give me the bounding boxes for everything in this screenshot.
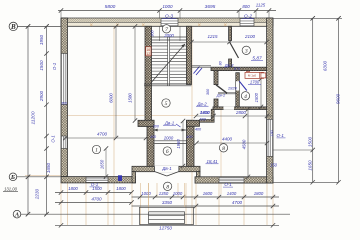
bathtub (245, 72, 264, 78)
svg-text:7: 7 (165, 27, 168, 33)
sink (261, 73, 266, 78)
room circle 8 (219, 144, 227, 152)
svg-text:300: 300 (151, 29, 155, 36)
svg-text:800: 800 (242, 4, 250, 9)
svg-text:1500: 1500 (254, 92, 259, 102)
bottom wall entrance raised band (132, 166, 200, 171)
porch side construction (148, 183, 150, 207)
svg-text:2100: 2100 (244, 34, 256, 39)
axis circle V (9, 22, 17, 30)
door Dv-2 leaf (216, 85, 227, 93)
bottom wall step right (197, 172, 201, 183)
svg-text:2230: 2230 (35, 188, 40, 200)
internal hdim y42 right (192, 41, 267, 43)
stair left wall (145, 26, 152, 120)
right mid dim line (273, 149, 313, 151)
svg-text:В: В (10, 23, 16, 31)
svg-text:400: 400 (195, 128, 202, 132)
svg-text:5: 5 (165, 101, 168, 107)
bottom dim row2 left line (55, 202, 132, 204)
svg-text:1500: 1500 (308, 136, 313, 147)
top dim extensions (60, 11, 62, 19)
room circle 3 (242, 46, 250, 54)
axis circle A (13, 210, 21, 218)
stair flight label red box (146, 47, 151, 56)
svg-text:4: 4 (244, 94, 247, 100)
room1 internal dim 4700 (63, 137, 147, 139)
internal vdim x248 (247, 109, 249, 177)
entrance door gap (155, 166, 179, 172)
top wall outer band (61, 18, 273, 23)
porch steps (149, 212, 185, 224)
svg-text:1500: 1500 (39, 60, 44, 71)
svg-text:1800: 1800 (254, 191, 264, 196)
svg-text:3350: 3350 (162, 200, 173, 205)
vestibule left stub (147, 120, 154, 166)
svg-text:1580: 1580 (128, 93, 133, 103)
svg-text:300: 300 (153, 125, 160, 129)
right top extension line (273, 17, 342, 19)
bottom dim row2 center line (132, 205, 280, 207)
internal vdim x135 (134, 26, 136, 120)
svg-text:5800: 5800 (105, 4, 116, 10)
partition B horizontal (211, 67, 267, 70)
construction horizontals (25, 175, 61, 177)
window O-1 left upper (61, 54, 67, 105)
svg-text:4400: 4400 (222, 137, 233, 142)
svg-text:1000: 1000 (173, 191, 183, 196)
svg-text:4500: 4500 (241, 139, 246, 149)
window O-1 bottom-right (219, 177, 244, 182)
internal vdim x116 (115, 26, 117, 138)
bottom dim row1 left line (55, 192, 132, 194)
stair landing extension lines (159, 26, 161, 41)
svg-text:Дв-3: Дв-3 (224, 63, 235, 68)
partition room3 vertical (229, 26, 232, 40)
svg-text:3: 3 (244, 48, 248, 54)
svg-text:1800: 1800 (116, 186, 126, 191)
svg-text:1700: 1700 (250, 80, 260, 85)
svg-text:3695: 3695 (205, 4, 216, 10)
internal hdim y116 (196, 115, 273, 117)
svg-text:Дв-1: Дв-1 (161, 166, 172, 171)
svg-text:400: 400 (186, 135, 193, 139)
svg-text:Б: Б (10, 174, 15, 181)
svg-text:1125: 1125 (256, 3, 266, 8)
svg-text:12: 12 (146, 52, 150, 56)
stair right wall (187, 26, 192, 84)
svg-text:1650: 1650 (46, 162, 51, 173)
svg-text:2900: 2900 (39, 90, 44, 102)
svg-text:6: 6 (166, 149, 169, 155)
internal vdim x261 bath (260, 79, 262, 107)
internal vdim x183 room6 (182, 121, 184, 166)
construction grid lines (60, 183, 62, 225)
svg-text:Дв-2: Дв-2 (216, 92, 226, 97)
svg-text:600: 600 (200, 117, 207, 121)
stair walk line with arrow (153, 44, 186, 81)
entrance threshold V door (155, 172, 167, 177)
corridor opening double line (192, 65, 212, 67)
svg-text:О-1: О-1 (224, 182, 232, 187)
room circle 7 (162, 25, 170, 33)
bottom wall left segment (61, 177, 136, 183)
svg-text:9600: 9600 (336, 93, 341, 104)
svg-text:2000: 2000 (163, 33, 174, 38)
svg-text:О-1: О-1 (91, 182, 99, 187)
room circle 1 (92, 145, 100, 153)
svg-text:А: А (14, 212, 20, 219)
svg-text:12750: 12750 (159, 226, 172, 231)
svg-text:1400: 1400 (227, 191, 237, 196)
svg-text:Дв-2: Дв-2 (196, 101, 207, 106)
window O-3 top wall (161, 19, 178, 26)
door Dv-3 leaf (229, 42, 238, 59)
corridor niche walls (200, 120, 215, 123)
internal hdim y143 (197, 142, 268, 144)
svg-text:О-1: О-1 (51, 135, 56, 143)
svg-text:131,00: 131,00 (4, 187, 17, 192)
door gap in room8 partition (224, 107, 235, 110)
door bath leaf (239, 81, 246, 90)
partition toilet vertical lower (214, 99, 218, 109)
room circle 6 (163, 147, 171, 155)
svg-text:400: 400 (150, 135, 157, 139)
svg-text:1000: 1000 (162, 4, 173, 9)
svg-text:1: 1 (95, 148, 98, 154)
porch platform rect (140, 207, 194, 224)
bottom wall right segment (195, 177, 273, 183)
svg-text:1650: 1650 (100, 159, 105, 169)
right wall (267, 18, 273, 183)
partition bath vertical (236, 73, 240, 107)
svg-text:1600: 1600 (203, 191, 213, 196)
axis B(b) line (17, 176, 61, 178)
vestibule right stub (187, 120, 195, 166)
svg-text:2820: 2820 (227, 85, 238, 90)
svg-text:Дв-1: Дв-1 (164, 120, 175, 125)
window O-2 top wall (240, 19, 254, 26)
svg-text:М 1с0: М 1с0 (248, 74, 257, 78)
svg-text:1950: 1950 (176, 139, 181, 149)
svg-text:870: 870 (234, 67, 241, 71)
svg-text:1650: 1650 (308, 160, 313, 171)
svg-text:1350: 1350 (159, 191, 169, 196)
room circle 5 (162, 99, 170, 107)
right dim line inner (312, 18, 314, 182)
left wall (61, 18, 68, 177)
left dim line B chain (46, 26, 48, 214)
top dim line (58, 10, 276, 12)
right dim line outer (338, 18, 340, 182)
svg-text:4700: 4700 (97, 131, 108, 136)
svg-text:8: 8 (166, 184, 169, 190)
bottom wall step left (132, 172, 136, 183)
room circle 8 (163, 182, 171, 190)
door swing marks right of stair (194, 67, 200, 74)
stair treads and stringer (151, 36, 187, 38)
svg-text:1800: 1800 (68, 186, 78, 191)
axis A line (21, 213, 290, 215)
window O-1 right wall (267, 119, 273, 156)
internal vdim x106 bottom-left (105, 149, 107, 177)
door bath gap (236, 81, 239, 90)
door Dv-1 leaf lines (155, 140, 187, 142)
svg-text:4700: 4700 (91, 196, 102, 201)
svg-text:4700: 4700 (232, 200, 243, 205)
bottom total dim line (55, 224, 279, 226)
partition toilet vertical upper (214, 71, 218, 85)
svg-text:О-1: О-1 (52, 62, 57, 70)
toilet bottom thin line (218, 92, 236, 94)
svg-text:1950: 1950 (39, 34, 44, 45)
svg-text:18,41: 18,41 (207, 159, 219, 164)
svg-text:6300: 6300 (323, 60, 328, 71)
svg-text:1400: 1400 (200, 110, 210, 115)
svg-text:8: 8 (222, 146, 225, 152)
svg-text:300: 300 (206, 88, 210, 95)
door Dv-1 dim arrow line (153, 129, 187, 131)
blue block in bottom wall (118, 175, 122, 181)
bottom dim row1 center line (132, 196, 280, 198)
axis circle B (9, 173, 17, 181)
room circle 4 (241, 92, 249, 100)
svg-text:2800: 2800 (235, 110, 246, 115)
svg-text:2000: 2000 (163, 136, 174, 141)
svg-text:150: 150 (270, 129, 274, 136)
window O-1 bottom-left (86, 177, 108, 182)
axis B line (18, 25, 61, 27)
svg-text:1000: 1000 (141, 191, 151, 196)
partition room8 horizontal (213, 107, 267, 110)
svg-text:О-1: О-1 (277, 133, 285, 138)
svg-text:6000: 6000 (109, 93, 114, 103)
svg-text:300: 300 (61, 102, 67, 106)
svg-text:150: 150 (270, 163, 278, 168)
window O-1 left lower (61, 136, 67, 149)
vestibule left stub top L (138, 120, 154, 126)
svg-text:11200: 11200 (31, 111, 37, 124)
right bottom extension (273, 181, 339, 183)
left dim line A total (27, 26, 29, 214)
partition room3 vertical lower seg (229, 59, 232, 67)
vestibule right stub top extension (187, 120, 200, 126)
svg-text:1215: 1215 (207, 34, 218, 39)
